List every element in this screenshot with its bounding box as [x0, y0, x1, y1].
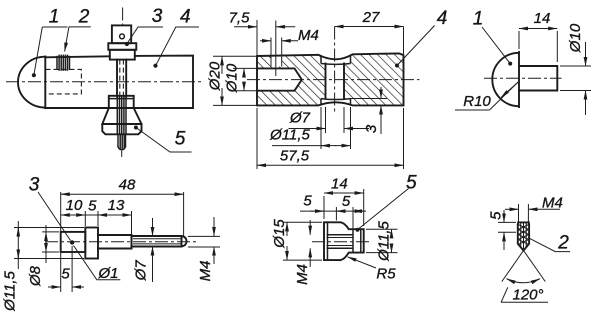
part5 outline	[324, 222, 364, 260]
part5 chamfer line right	[360, 229, 362, 252]
top counterbore	[321, 56, 351, 64]
ext lines 57,5	[256, 108, 258, 169]
body outline with top dip and bottom bump	[257, 53, 404, 105]
screw 2 thread pattern	[518, 223, 528, 250]
leader 4 shelf line and dot	[156, 27, 199, 65]
svg-text:4: 4	[437, 8, 448, 29]
ext lines dim 14	[518, 31, 520, 49]
part1 dome	[492, 52, 519, 107]
vertical hole Ø7 walls	[325, 64, 327, 99]
ext lines Ø11,5	[14, 227, 84, 229]
knob5 taper	[102, 108, 141, 124]
svg-text:1: 1	[473, 9, 484, 30]
dim M4 (part5)	[309, 220, 311, 235]
svg-text:3: 3	[363, 124, 380, 133]
leader 1 shelf	[42, 26, 67, 28]
svg-text:48: 48	[119, 177, 136, 194]
blind bore walls	[257, 68, 302, 90]
dim 5 (screw)	[503, 210, 505, 222]
dim Ø15	[286, 222, 288, 236]
leader 1 line and dot	[482, 27, 510, 64]
dim Ø8	[45, 225, 47, 263]
svg-text:14: 14	[331, 176, 348, 193]
svg-text:5: 5	[175, 129, 186, 150]
part3 flange rect	[85, 228, 98, 259]
svg-text:1: 1	[49, 7, 60, 28]
svg-text:5: 5	[303, 193, 312, 210]
svg-text:120°: 120°	[512, 287, 543, 304]
body part4 outline	[45, 56, 193, 108]
centerline assembly horizontal	[6, 81, 201, 83]
stud centerline	[121, 151, 123, 158]
cone angle lines	[502, 251, 524, 282]
leader 2 line	[529, 238, 570, 251]
dim Ø11,5 (part5)	[391, 229, 393, 237]
part1 dome cap	[18, 57, 45, 109]
part3 head hole	[120, 34, 125, 39]
screw 2 body	[518, 222, 529, 250]
svg-text:5: 5	[88, 198, 97, 215]
part3 head	[112, 25, 131, 43]
part3 flange lower	[110, 50, 135, 60]
centerline part1	[484, 77, 562, 79]
centerline part5	[312, 241, 372, 243]
part3 head rect	[61, 232, 86, 252]
leader 3 line	[38, 192, 71, 241]
dim M4 (part3)	[213, 217, 215, 236]
ext line hole center	[71, 246, 73, 292]
thread lines	[133, 238, 182, 240]
svg-text:M4: M4	[197, 261, 214, 282]
stud thread below knob	[118, 134, 126, 149]
svg-text:Ø11,5: Ø11,5	[376, 220, 393, 261]
part3 thread section	[132, 235, 187, 249]
leader 2 arrow	[69, 26, 91, 28]
ext line body left edge up	[256, 20, 258, 55]
knob5 thread cluster	[117, 97, 126, 135]
knob5 flange rim line	[109, 98, 134, 100]
svg-text:Ø10: Ø10	[224, 63, 241, 93]
svg-text:Ø10: Ø10	[567, 23, 584, 53]
leader 5 line and dot	[359, 189, 409, 229]
svg-text:Ø1: Ø1	[97, 265, 118, 282]
ext lines M4 (part3)	[188, 235, 220, 237]
set screw 2 thread lines	[57, 55, 70, 71]
svg-text:2: 2	[557, 232, 569, 253]
hatching left block	[257, 55, 321, 106]
leader 4 line and dot	[397, 26, 435, 66]
knob5 flange	[109, 96, 134, 108]
leader 1 line and dot	[34, 27, 42, 74]
svg-text:5: 5	[488, 211, 505, 220]
svg-text:Ø11,5: Ø11,5	[1, 270, 18, 311]
part5 chamfer line left	[327, 222, 329, 260]
dim Ø10 (stem)	[585, 42, 587, 66]
bottom counterbore	[321, 99, 351, 104]
svg-text:Ø11,5: Ø11,5	[269, 127, 310, 144]
svg-text:57,5: 57,5	[280, 148, 310, 165]
svg-text:3: 3	[152, 6, 163, 27]
stud tip arc	[118, 147, 126, 150]
leader 3 shelf line and dot	[127, 27, 163, 43]
hole Ø1 dot	[70, 240, 74, 244]
ext lines 14 (part5)	[323, 196, 325, 219]
dim Ø11,5 (part3)	[17, 221, 19, 269]
dim Ø10 (bore)	[233, 67, 258, 69]
vertical hole axis	[334, 27, 336, 113]
dim Ø20	[213, 55, 256, 57]
ext lines 5 (screw)	[498, 221, 516, 223]
svg-text:2: 2	[78, 7, 90, 28]
ext line taper end up	[352, 207, 354, 229]
dim 3	[351, 98, 388, 100]
ext lines 48	[60, 192, 62, 292]
svg-text:Ø8: Ø8	[27, 265, 44, 287]
dim Ø7 (part3 shaft)	[152, 218, 154, 236]
svg-text:5: 5	[61, 266, 70, 283]
angle arc with arrows	[507, 279, 540, 283]
part3 shaft hidden thread dashed	[119, 60, 121, 97]
ext lines Ø7	[325, 107, 327, 133]
svg-text:5: 5	[342, 193, 351, 210]
M4 ext lines (screw)	[518, 204, 520, 222]
svg-text:10: 10	[66, 197, 83, 214]
hatching middle strips	[321, 64, 351, 99]
horizontal centerline view B	[247, 79, 420, 81]
ext lines Ø15	[283, 221, 322, 223]
knob5 bottom block	[102, 124, 141, 134]
leader 5 line and dot	[136, 128, 192, 153]
part3 shaft solid lines	[116, 60, 118, 97]
ext line taper start	[335, 207, 337, 221]
part1 stem	[519, 66, 557, 91]
svg-text:14: 14	[534, 10, 551, 27]
ext lines Ø10 stem	[560, 65, 591, 67]
hatching right block	[351, 53, 404, 105]
hidden bore dashed rect	[46, 69, 82, 94]
svg-text:Ø7: Ø7	[289, 110, 311, 127]
svg-text:Ø20: Ø20	[207, 61, 224, 91]
M4 hole lines	[270, 38, 272, 67]
svg-text:M4: M4	[298, 27, 319, 44]
svg-text:7,5: 7,5	[229, 10, 251, 27]
svg-text:Ø15: Ø15	[271, 219, 288, 249]
part3 flange upper	[108, 43, 136, 50]
ext lines Ø8	[42, 231, 59, 233]
svg-text:Ø7: Ø7	[132, 260, 149, 282]
part5 thread hole lines	[327, 234, 354, 236]
svg-text:4: 4	[180, 7, 191, 28]
part3 top centerline	[122, 8, 124, 26]
svg-text:R5: R5	[376, 266, 396, 283]
svg-text:27: 27	[362, 9, 380, 26]
part5 taper end line	[352, 229, 354, 252]
svg-text:5: 5	[406, 173, 417, 194]
ext lines Ø11,5 (part5)	[366, 228, 398, 230]
dim Ø1 leader	[74, 246, 121, 280]
ext lines 10 5 13	[84, 211, 86, 226]
svg-text:M4: M4	[294, 264, 311, 285]
svg-text:R10: R10	[463, 93, 491, 110]
part3 shaft	[98, 235, 132, 249]
centerline part3	[45, 241, 197, 243]
svg-text:13: 13	[108, 197, 125, 214]
ext lines Ø11,5	[320, 107, 322, 149]
